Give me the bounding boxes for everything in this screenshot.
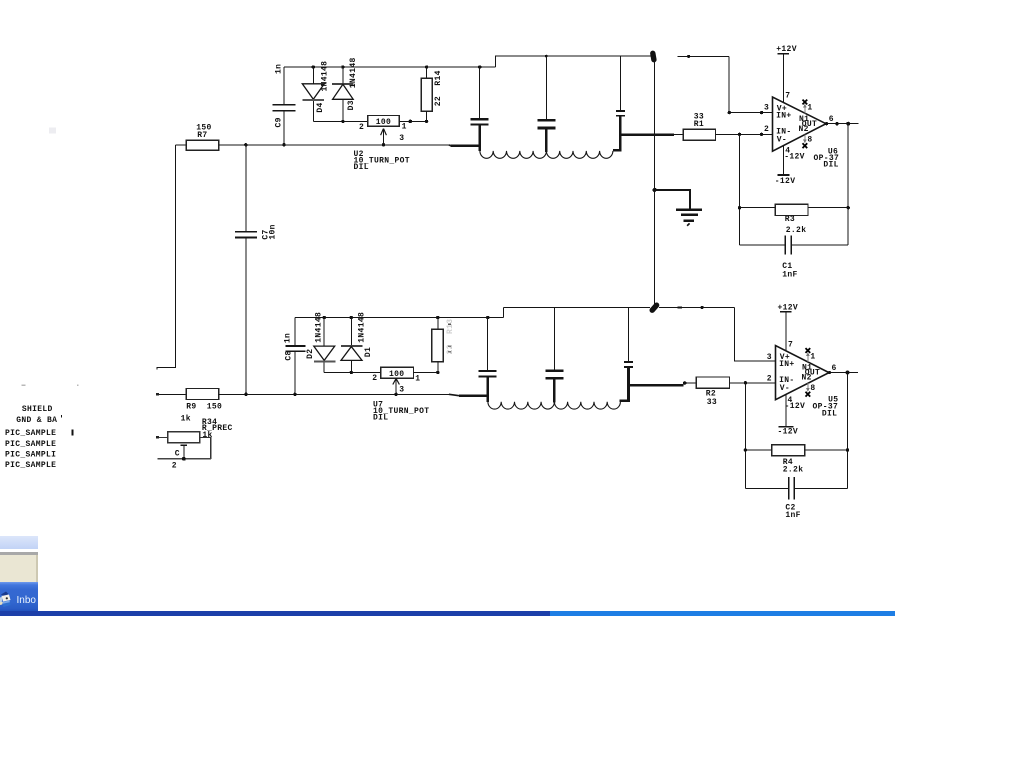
wire: ch2 filter output to R2 (thick) bbox=[629, 384, 684, 387]
ch2 filter capacitor CA stub bbox=[487, 318, 489, 371]
resistor R34 left lead with tick bbox=[157, 437, 167, 439]
wire: pot U2 pin1 to R14 bbox=[399, 120, 426, 122]
ch2 filter capacitor CB stub bbox=[553, 308, 555, 371]
wire: top right segment with gap bbox=[677, 55, 729, 57]
svg-text:PIC_SAMPLE: PIC_SAMPLE bbox=[5, 440, 56, 449]
junction dot on output wire bbox=[835, 122, 838, 125]
wire: thin lead into R1 bbox=[674, 134, 684, 136]
window fragment bottom left bbox=[0, 536, 38, 549]
wire: C1 row right bbox=[792, 244, 848, 246]
inductor L2 arcs bbox=[546, 151, 612, 158]
ground symbol bbox=[676, 209, 702, 212]
wire: ch1 bus from R7 to pot arrow (node A) bbox=[219, 144, 449, 146]
junction dot C7 top bbox=[244, 143, 247, 146]
svg-text:-12V: -12V bbox=[775, 177, 796, 186]
svg-text:GND & BA: GND & BA bbox=[16, 416, 57, 425]
svg-text:V-: V- bbox=[777, 136, 787, 145]
wire: corner down to op-amp U6 pin3 bbox=[729, 56, 772, 112]
diode D3 (pointing up) bbox=[342, 67, 344, 84]
svg-text:1n: 1n bbox=[275, 64, 284, 74]
resistor R14 top stub bbox=[426, 67, 428, 78]
junction dot C9 bottom bbox=[282, 143, 285, 146]
pot U7 wiper arrow bbox=[395, 379, 397, 394]
junction dot D4 top bbox=[312, 65, 315, 68]
faint dash artifacts bbox=[22, 384, 26, 386]
svg-text:SHIELD: SHIELD bbox=[22, 405, 53, 414]
potentiometer U2 body bbox=[368, 116, 400, 127]
ch2 filter capacitor CB plates bbox=[545, 369, 563, 372]
svg-text:-12V: -12V bbox=[785, 402, 806, 411]
capacitor C7 stub bbox=[245, 145, 247, 231]
filter capacitor CB plates bbox=[537, 119, 555, 122]
svg-text:1: 1 bbox=[810, 353, 815, 362]
svg-text:D3: D3 bbox=[347, 100, 356, 110]
filter capacitor CA bottom stub (thick) bbox=[478, 125, 481, 151]
ch2 inductor L1 arcs bbox=[488, 402, 554, 409]
svg-text:+12V: +12V bbox=[778, 304, 799, 313]
capacitor C stem bbox=[183, 445, 185, 459]
svg-text:3: 3 bbox=[399, 385, 404, 394]
junction dot R14 top bbox=[425, 65, 428, 68]
junction dot D1 bottom bbox=[350, 371, 353, 374]
wire: pot U7 pin1 to R13 bbox=[414, 371, 438, 373]
junction dot output to feedback ch2 bbox=[846, 371, 850, 375]
wire: R3 row bbox=[740, 207, 849, 209]
svg-text:1nF: 1nF bbox=[782, 271, 797, 280]
diode D4 (pointing down) bbox=[312, 67, 314, 84]
svg-text:R9 150: R9 150 bbox=[186, 403, 222, 412]
U6 pin1 X mark and stub bbox=[804, 105, 806, 114]
resistor R9 bbox=[186, 389, 219, 400]
resistor R2 bbox=[696, 377, 729, 388]
svg-text:DIL: DIL bbox=[823, 161, 838, 170]
junction dot R4 left bbox=[744, 448, 747, 451]
svg-text:PIC_SAMPLE: PIC_SAMPLE bbox=[5, 429, 56, 438]
capacitor C9 plates bbox=[273, 104, 296, 106]
junction dot D2 top bbox=[323, 316, 326, 319]
svg-text:DIL: DIL bbox=[354, 163, 369, 172]
svg-text:+12V: +12V bbox=[776, 45, 797, 54]
wire: R2 to U5 pin2 bbox=[730, 382, 776, 384]
resistor R13 bottom stub bbox=[437, 362, 439, 373]
svg-text:8: 8 bbox=[810, 384, 815, 393]
ch2 filter capacitor CA bottom stub (thick) bbox=[486, 376, 489, 401]
wire: ch1 filter output to R1 (thick) bbox=[620, 133, 673, 136]
wire: ch2 jog up bbox=[503, 308, 505, 318]
wire: ch2 thick segment into filter bbox=[459, 394, 488, 397]
svg-text:33: 33 bbox=[707, 398, 717, 407]
junction dot feedback tap bbox=[738, 133, 741, 136]
wire: feedback left vertical ch2 bbox=[744, 383, 746, 489]
junction dot feedback tap ch2 bbox=[744, 381, 747, 384]
resistor R3 bbox=[775, 204, 808, 215]
junction dot filter capA top bbox=[478, 65, 481, 68]
resistor R14 bottom stub bbox=[426, 111, 428, 121]
resistor R1 bbox=[683, 129, 715, 140]
svg-text:3: 3 bbox=[399, 134, 404, 143]
wire: ch2 bus from R9 (node B) bbox=[219, 393, 449, 395]
ch2 filter capacitor CA plates bbox=[479, 370, 497, 372]
svg-text:1N4148: 1N4148 bbox=[320, 61, 329, 92]
junction dot R13 top bbox=[436, 316, 439, 319]
ch2 filter capacitor CC plates bbox=[624, 361, 633, 363]
junction dot output to feedback bbox=[846, 122, 850, 126]
junction dot pot U2 wiper bbox=[382, 143, 385, 146]
wire: ch2 L2 to output node jog (thick) bbox=[620, 385, 629, 401]
wire: feedback right vertical bbox=[847, 124, 849, 245]
ch2 filter capacitor CB bottom stub (thick) bbox=[553, 378, 556, 402]
svg-text:PIC_SAMPLI: PIC_SAMPLI bbox=[5, 450, 56, 459]
potentiometer U7 body bbox=[381, 367, 414, 378]
svg-text:2.2k: 2.2k bbox=[786, 226, 807, 235]
wire: diode bottom bus to pot U2 bbox=[313, 120, 367, 122]
capacitor C1 plates bbox=[784, 236, 786, 255]
wire: R1 to U6 pin2 bbox=[716, 133, 773, 135]
svg-text:1k: 1k bbox=[181, 415, 191, 424]
wire: ch1 filter top jog bbox=[496, 56, 654, 67]
pot U2 wiper arrow bbox=[383, 129, 385, 145]
svg-text:2: 2 bbox=[372, 374, 377, 383]
wire: C2 row left bbox=[745, 487, 788, 489]
svg-text:N2: N2 bbox=[799, 125, 809, 134]
wire: ch1 diode top bus y=67 bbox=[284, 66, 496, 68]
svg-text:2: 2 bbox=[172, 462, 177, 471]
junction dot pot U7 wiper bbox=[394, 393, 397, 396]
capacitor C7 stub bottom bbox=[245, 238, 247, 394]
junction dot C bottom bbox=[182, 457, 186, 461]
wire: feedback right vertical ch2 bbox=[847, 373, 849, 489]
svg-text:1n: 1n bbox=[283, 333, 292, 343]
wire: ground tee bbox=[655, 190, 690, 209]
svg-text:D2: D2 bbox=[306, 349, 315, 359]
capacitor C7 plates bbox=[235, 231, 257, 233]
svg-text:2: 2 bbox=[764, 125, 769, 134]
taskbar app icon (Outlook) bbox=[0, 591, 13, 609]
ch2 filter capacitor CC bottom stub (thick) bbox=[627, 367, 630, 385]
svg-text:N2: N2 bbox=[802, 374, 812, 383]
wire: R4 row bbox=[745, 449, 847, 451]
filter capacitor CA stub bbox=[479, 67, 481, 119]
capacitor C8 top corner bbox=[294, 318, 296, 346]
svg-text:7: 7 bbox=[785, 92, 790, 101]
U6 pin4 stem bbox=[783, 146, 785, 175]
inductor L1 arcs bbox=[480, 151, 546, 158]
svg-text:22 R14: 22 R14 bbox=[434, 70, 443, 106]
wire: ch2 diode bottom bus to pot U7 bbox=[324, 371, 381, 373]
svg-text:DIL: DIL bbox=[373, 414, 388, 423]
filter capacitor CC bottom stub (thick) bbox=[619, 116, 622, 135]
wire: U6 output bbox=[826, 123, 859, 125]
svg-text:1: 1 bbox=[807, 104, 812, 113]
svg-text:-12V: -12V bbox=[778, 428, 799, 437]
svg-text:3: 3 bbox=[767, 353, 772, 362]
svg-text:V-: V- bbox=[780, 384, 790, 393]
capacitor C2 plates bbox=[788, 477, 790, 499]
filter capacitor CA plates bbox=[471, 118, 489, 120]
svg-text:1N4148: 1N4148 bbox=[357, 312, 366, 343]
svg-text:D4: D4 bbox=[316, 102, 325, 112]
wire: ch1 R7 left lead bbox=[175, 144, 186, 146]
svg-text:1N4148: 1N4148 bbox=[314, 312, 323, 343]
svg-text:D1: D1 bbox=[364, 347, 373, 357]
svg-text:PIC_SAMPLE: PIC_SAMPLE bbox=[5, 461, 56, 470]
svg-text:10n: 10n bbox=[269, 224, 278, 239]
taskbar fragment bbox=[0, 582, 38, 611]
artifact thick dash on wire bbox=[678, 306, 683, 308]
svg-text:1N4148: 1N4148 bbox=[349, 57, 358, 88]
svg-text:C9: C9 bbox=[275, 117, 284, 127]
resistor R13 bbox=[432, 329, 443, 361]
junction dot C7 bottom bbox=[244, 393, 247, 396]
junction dot on top right segment bbox=[687, 55, 690, 58]
ch2 filter capacitor CC stub bbox=[628, 307, 630, 361]
navy status bar bbox=[0, 611, 550, 616]
wire: thin lead into R2 bbox=[685, 382, 696, 384]
svg-text:IN+: IN+ bbox=[779, 360, 794, 369]
power +12V symbol U6 bbox=[783, 54, 785, 103]
junction dot at U6 apex bbox=[825, 122, 828, 125]
svg-text:1: 1 bbox=[402, 123, 407, 132]
wire: U5 output bbox=[829, 372, 858, 374]
junction dot D3 bottom bbox=[341, 120, 344, 123]
svg-text:R3: R3 bbox=[785, 215, 795, 224]
wire: ch2 diode top bus bbox=[295, 317, 504, 319]
svg-text:100: 100 bbox=[389, 370, 404, 379]
wire: ch1 thick segment into filter bbox=[451, 144, 480, 147]
capacitor C9 stub top bbox=[283, 67, 285, 104]
capacitor C8 plates bbox=[286, 345, 306, 347]
filter capacitor CC plates bbox=[616, 110, 625, 112]
svg-text:3: 3 bbox=[764, 104, 769, 113]
svg-text:R1: R1 bbox=[694, 120, 704, 129]
junction dot D1 top bbox=[350, 316, 353, 319]
svg-text:R7: R7 bbox=[197, 131, 207, 140]
svg-text:1nF: 1nF bbox=[785, 511, 800, 520]
junction dot R3 right bbox=[847, 206, 850, 209]
filter capacitor CB bottom stub (thick) bbox=[545, 128, 548, 152]
svg-text:6: 6 bbox=[832, 364, 837, 373]
U5 pin8 X mark and stub bbox=[807, 383, 809, 391]
junction dot ch2 top bbox=[701, 306, 704, 309]
wire: feedback left vertical bbox=[739, 134, 741, 245]
wire: corner down to U5 pin3 bbox=[735, 307, 776, 361]
svg-text:8: 8 bbox=[807, 136, 812, 145]
capacitor C plate bbox=[180, 444, 187, 446]
svg-text:100: 100 bbox=[376, 118, 391, 127]
svg-text:-12V: -12V bbox=[784, 152, 805, 161]
wire: L2 to output node jog (thick) bbox=[613, 135, 621, 151]
svg-text:C: C bbox=[175, 450, 180, 459]
U5 pin1 X mark and stub bbox=[807, 353, 809, 362]
svg-text:6: 6 bbox=[829, 115, 834, 124]
power -12V symbol U5 bbox=[779, 426, 794, 428]
junction dot ch2 capA top bbox=[486, 316, 489, 319]
ch2 inductor L2 arcs bbox=[554, 402, 620, 409]
svg-text:2: 2 bbox=[767, 375, 772, 384]
filter capacitor CC stub bbox=[619, 56, 621, 110]
svg-text:C8: C8 bbox=[285, 350, 294, 360]
resistor R14 bbox=[421, 78, 432, 111]
junction filter capB top tick bbox=[545, 55, 548, 58]
svg-text:2.2k: 2.2k bbox=[783, 466, 804, 475]
pin connection dot U6 pin3 bbox=[760, 111, 763, 114]
bright blue status bar bbox=[550, 611, 895, 616]
wire: long vertical node bus x=654.6 bbox=[654, 60, 656, 304]
svg-text:2: 2 bbox=[359, 123, 364, 132]
U5 pin4 stem bbox=[785, 394, 787, 427]
junction dot pot U2 pin1 bbox=[409, 120, 413, 124]
wire: ch2 filter top bus bbox=[504, 307, 651, 309]
wire: C1 row left bbox=[740, 244, 785, 246]
junction dot R2 input bbox=[683, 381, 687, 385]
junction dot at U5 apex bbox=[828, 371, 831, 374]
resistor R13 top stub bbox=[437, 318, 439, 330]
capacitor C8 stub bottom bbox=[294, 352, 296, 394]
wire: R34 bottom row bbox=[157, 458, 210, 460]
diode D1 (pointing up) bbox=[350, 318, 352, 347]
junction dot D3 top bbox=[341, 65, 344, 68]
svg-text:7: 7 bbox=[788, 341, 793, 350]
wire: ch2 top right to corner bbox=[659, 306, 735, 308]
pin connection dot U6 pin2 bbox=[760, 133, 763, 136]
junction dot R4 right bbox=[846, 448, 849, 451]
wire: C2 row right bbox=[795, 487, 848, 489]
taskbar label Inbo bbox=[17, 595, 39, 606]
U6 pin8 X mark and stub bbox=[804, 135, 806, 143]
faint smudge artifact bbox=[49, 128, 56, 134]
junction blob node 2 (big) bbox=[652, 305, 656, 310]
wire: ch1 jog down to thick segment bbox=[449, 144, 451, 147]
junction dot R14 bottom bbox=[425, 120, 428, 123]
junction blob node (big) bbox=[653, 53, 654, 59]
resistor R7 bbox=[186, 140, 219, 150]
resistor R9 left lead with tick bbox=[157, 393, 186, 395]
junction dot C8 bottom bbox=[293, 393, 296, 396]
junction dot R3 left bbox=[738, 206, 741, 209]
wire: ch2 jog down diagonal bbox=[449, 394, 459, 395]
resistor R4 bbox=[772, 445, 805, 456]
diode D2 (pointing down) bbox=[323, 318, 325, 347]
capacitor C9 stub bottom bbox=[283, 112, 285, 145]
svg-text:1: 1 bbox=[415, 374, 420, 383]
op-amp U6 triangle bbox=[773, 97, 827, 151]
power -12V symbol U6 bbox=[778, 174, 790, 176]
svg-text:IN+: IN+ bbox=[776, 112, 791, 121]
resistor R34 bbox=[168, 432, 200, 443]
wire: ch1 left vertical drop bbox=[157, 145, 175, 370]
junction dot at corner bbox=[728, 111, 731, 114]
junction dot R13 bottom bbox=[436, 371, 439, 374]
junction tick at ground tee bbox=[653, 188, 657, 192]
filter capacitor CB stub bbox=[545, 56, 547, 119]
wire: R34 right to bottom bbox=[200, 438, 211, 459]
op-amp U5 triangle bbox=[776, 346, 830, 400]
svg-text:DIL: DIL bbox=[822, 409, 837, 418]
power +12V symbol U5 bbox=[785, 312, 787, 351]
